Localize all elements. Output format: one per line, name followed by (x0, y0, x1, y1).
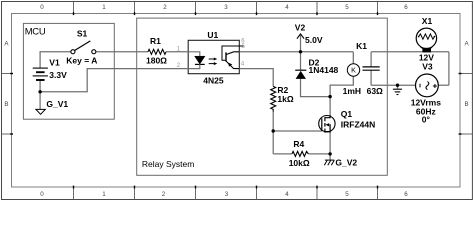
svg-text:0°: 0° (422, 115, 431, 125)
svg-text:G_V2: G_V2 (335, 157, 357, 167)
svg-text:R1: R1 (150, 36, 161, 46)
svg-text:63Ω: 63Ω (367, 86, 383, 96)
svg-text:1kΩ: 1kΩ (277, 94, 293, 104)
svg-text:3.3V: 3.3V (49, 70, 67, 80)
svg-text:R4: R4 (293, 139, 304, 149)
svg-text:K1: K1 (356, 41, 367, 51)
svg-text:5.0V: 5.0V (305, 35, 323, 45)
svg-text:5: 5 (345, 191, 349, 198)
svg-text:V2: V2 (295, 23, 306, 33)
svg-text:5: 5 (345, 4, 349, 11)
svg-text:MCU: MCU (25, 27, 46, 38)
svg-text:V1: V1 (49, 57, 60, 67)
svg-text:Relay System: Relay System (142, 159, 194, 169)
svg-text:3: 3 (224, 4, 228, 11)
svg-text:Key = A: Key = A (66, 55, 97, 65)
svg-text:U1: U1 (207, 30, 218, 40)
svg-text:6: 6 (404, 4, 408, 11)
svg-text:10kΩ: 10kΩ (289, 158, 310, 168)
svg-text:V3: V3 (422, 61, 433, 71)
svg-text:1mH: 1mH (343, 86, 361, 96)
svg-text:0: 0 (40, 191, 44, 198)
svg-text:180Ω: 180Ω (146, 56, 167, 66)
svg-text:6: 6 (404, 191, 408, 198)
svg-text:0: 0 (40, 4, 44, 11)
svg-text:4N25: 4N25 (203, 76, 224, 86)
svg-text:1: 1 (102, 191, 106, 198)
svg-text:K: K (351, 66, 356, 75)
svg-text:2: 2 (163, 4, 167, 11)
svg-text:4: 4 (285, 4, 289, 11)
svg-text:IRFZ44N: IRFZ44N (341, 119, 375, 129)
svg-text:Q1: Q1 (341, 109, 353, 119)
svg-text:B: B (4, 101, 8, 108)
svg-text:G_V1: G_V1 (46, 99, 68, 109)
svg-text:1: 1 (102, 4, 106, 11)
svg-text:2: 2 (162, 191, 166, 198)
svg-text:B: B (465, 101, 469, 108)
svg-text:3: 3 (225, 191, 229, 198)
svg-text:S1: S1 (77, 29, 88, 39)
svg-text:1N4148: 1N4148 (309, 65, 339, 75)
svg-text:4: 4 (285, 191, 289, 198)
svg-text:X1: X1 (422, 16, 433, 26)
